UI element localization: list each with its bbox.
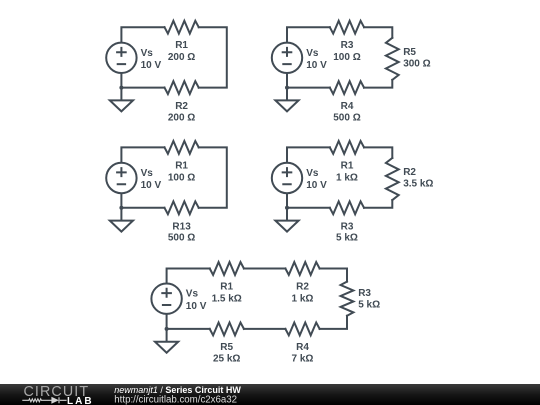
svg-text:100 Ω: 100 Ω	[333, 52, 360, 63]
svg-text:100 Ω: 100 Ω	[168, 172, 195, 183]
svg-text:300 Ω: 300 Ω	[403, 58, 430, 69]
svg-text:R4: R4	[296, 342, 309, 353]
svg-text:LAB: LAB	[67, 396, 94, 405]
svg-text:R1: R1	[175, 40, 188, 51]
svg-text:R3: R3	[341, 221, 354, 232]
svg-text:Vs: Vs	[141, 168, 154, 179]
svg-text:10 V: 10 V	[141, 60, 162, 71]
svg-text:25 kΩ: 25 kΩ	[213, 353, 240, 364]
svg-text:R2: R2	[296, 282, 309, 293]
svg-text:3.5 kΩ: 3.5 kΩ	[403, 179, 433, 190]
svg-text:R2: R2	[403, 167, 416, 178]
svg-text:5 kΩ: 5 kΩ	[358, 299, 380, 310]
svg-text:10 V: 10 V	[141, 180, 162, 191]
svg-text:R4: R4	[341, 101, 354, 112]
svg-text:Vs: Vs	[141, 48, 154, 59]
svg-text:R3: R3	[341, 40, 354, 51]
svg-text:1 kΩ: 1 kΩ	[292, 294, 314, 305]
svg-text:10 V: 10 V	[186, 301, 207, 312]
svg-text:http://circuitlab.com/c2x6a32: http://circuitlab.com/c2x6a32	[114, 395, 237, 405]
svg-text:1.5 kΩ: 1.5 kΩ	[212, 294, 242, 305]
svg-text:10 V: 10 V	[306, 60, 327, 71]
svg-text:Vs: Vs	[306, 48, 319, 59]
svg-text:R13: R13	[172, 221, 191, 232]
svg-text:10 V: 10 V	[306, 180, 327, 191]
svg-text:1 kΩ: 1 kΩ	[336, 172, 358, 183]
svg-text:200 Ω: 200 Ω	[168, 112, 195, 123]
svg-text:R1: R1	[341, 160, 354, 171]
svg-text:Vs: Vs	[306, 168, 319, 179]
svg-text:R1: R1	[220, 282, 233, 293]
svg-text:R3: R3	[358, 288, 371, 299]
svg-text:newmanjt1 / Series Circuit HW: newmanjt1 / Series Circuit HW	[114, 385, 241, 395]
svg-text:R2: R2	[175, 101, 188, 112]
svg-text:R1: R1	[175, 160, 188, 171]
svg-text:200 Ω: 200 Ω	[168, 52, 195, 63]
svg-text:R5: R5	[403, 47, 416, 58]
svg-text:500 Ω: 500 Ω	[333, 112, 360, 123]
svg-text:5 kΩ: 5 kΩ	[336, 232, 358, 243]
svg-text:Vs: Vs	[186, 289, 199, 300]
svg-text:R5: R5	[220, 342, 233, 353]
svg-text:7 kΩ: 7 kΩ	[292, 353, 314, 364]
svg-text:500 Ω: 500 Ω	[168, 232, 195, 243]
